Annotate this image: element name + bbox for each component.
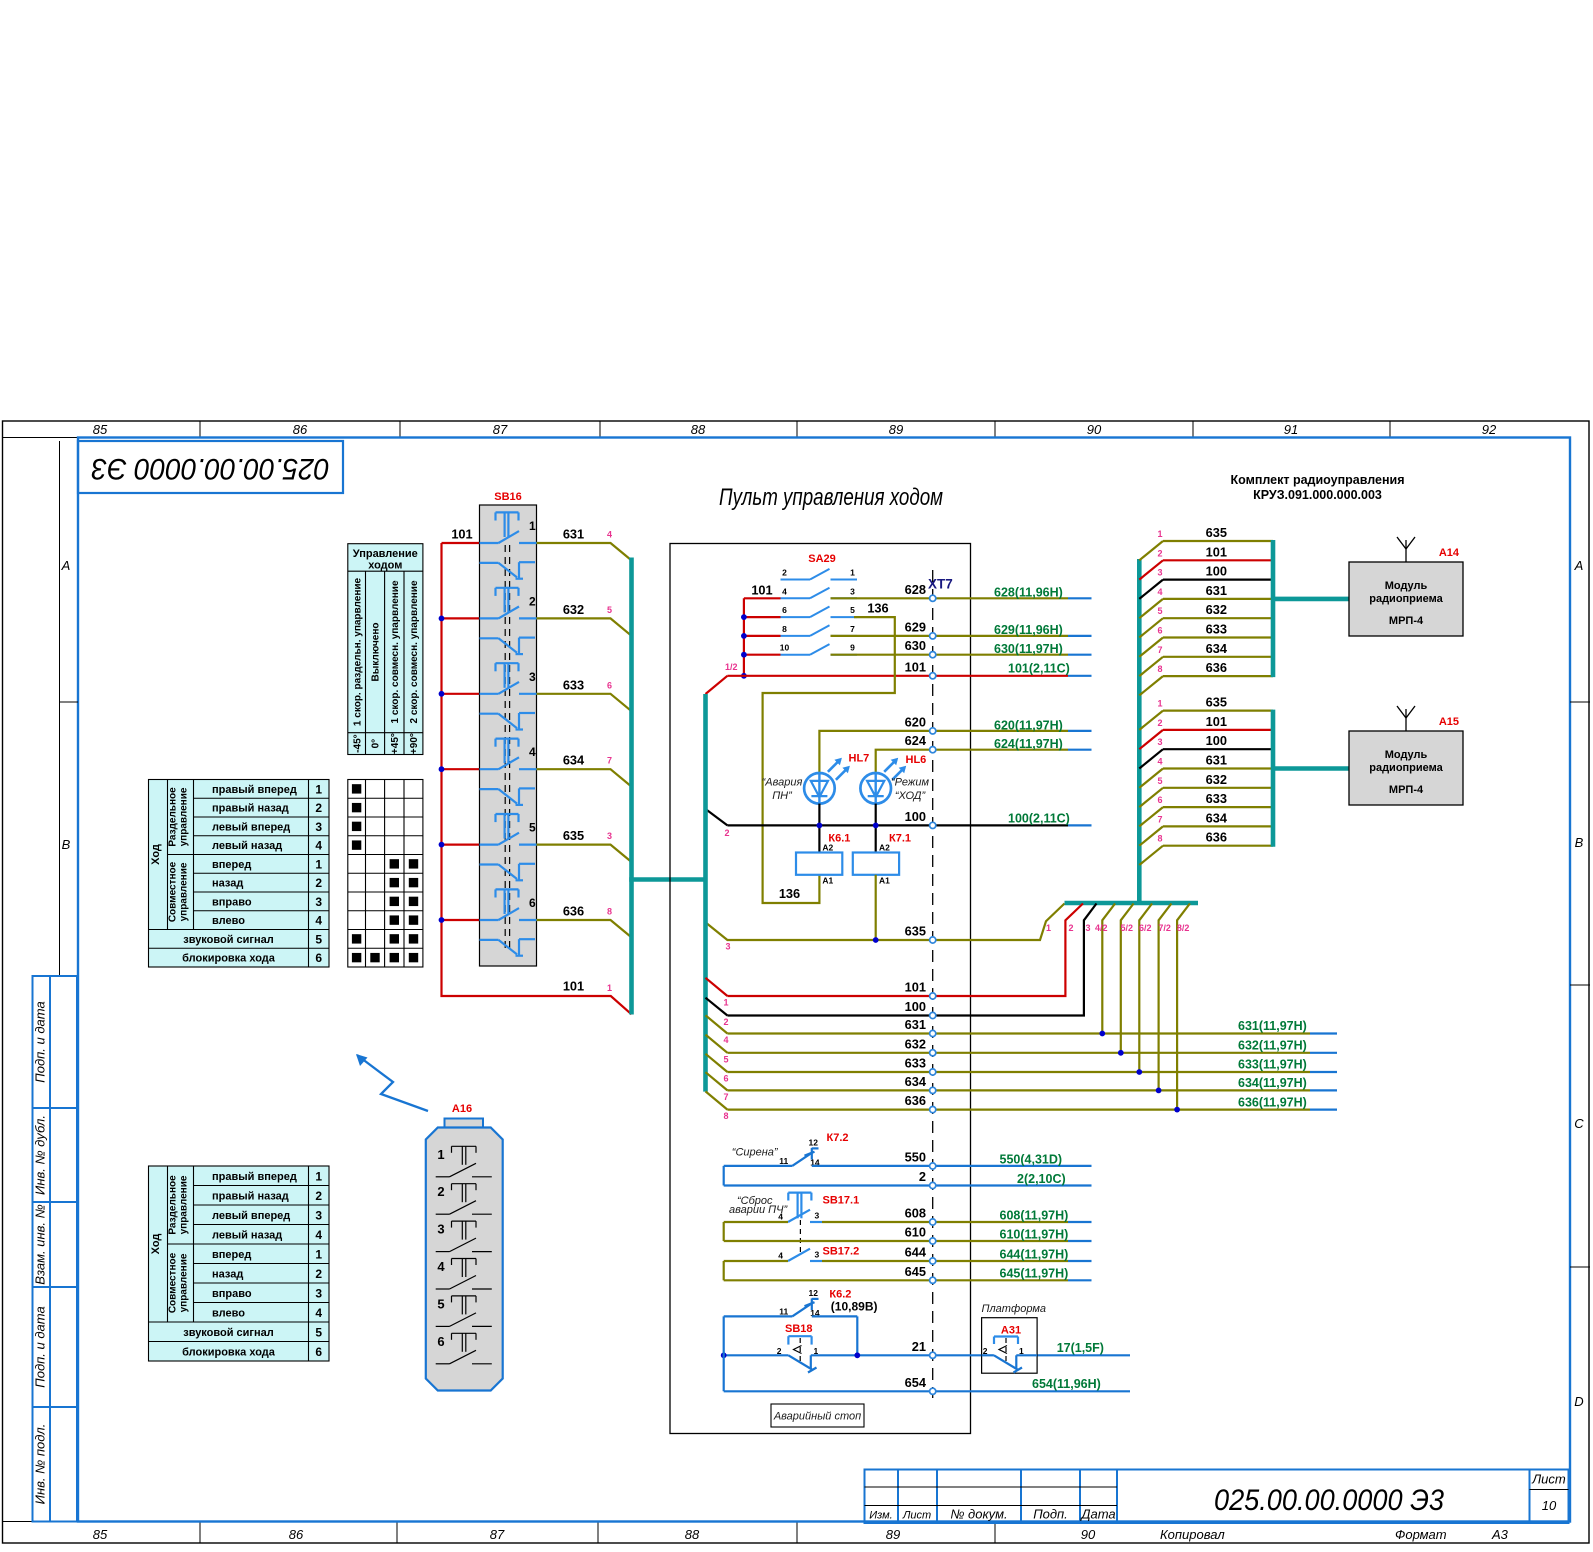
wire 632 (SB16 pin 5) [537, 602, 632, 636]
svg-text:12: 12 [809, 1288, 819, 1298]
svg-text:3: 3 [607, 831, 612, 841]
svg-text:Платформа: Платформа [982, 1303, 1047, 1315]
svg-text:17(1,5F): 17(1,5F) [1057, 1341, 1104, 1355]
A16 contact 6 [436, 1333, 492, 1364]
svg-text:3: 3 [529, 670, 536, 684]
svg-text:3: 3 [437, 1222, 444, 1237]
svg-text:Комплект радиоуправления: Комплект радиоуправления [1230, 473, 1404, 487]
svg-text:1: 1 [315, 782, 322, 796]
svg-text:правый вперед: правый вперед [212, 1171, 297, 1183]
svg-text:1 скор. совмесн. упарвление: 1 скор. совмесн. упарвление [390, 580, 401, 723]
svg-text:Управление: Управление [353, 548, 418, 560]
svg-text:4: 4 [315, 914, 322, 928]
svg-text:Взам. инв. №: Взам. инв. № [33, 1204, 48, 1284]
wire 2 row [724, 1166, 1092, 1186]
svg-text:2: 2 [1157, 548, 1162, 558]
svg-text:1 скор. раздельн. упарвление: 1 скор. раздельн. упарвление [352, 577, 363, 726]
wire 633 (SB16 pin 6) [537, 677, 632, 711]
svg-text:92: 92 [1482, 422, 1497, 437]
switch SB16 unit 4 [480, 739, 537, 805]
svg-text:7: 7 [850, 624, 855, 634]
svg-text:5: 5 [723, 1054, 728, 1064]
junction dot wire 636 [1174, 1107, 1180, 1113]
wire 633 row [706, 904, 1338, 1084]
emergency stop button SB18 [724, 1323, 819, 1373]
wire 21 row [811, 1339, 1130, 1356]
svg-text:Модуль: Модуль [1385, 749, 1428, 761]
svg-text:100: 100 [905, 999, 926, 1014]
svg-text:610: 610 [905, 1225, 926, 1240]
wire 634 to module A15 pin 7 [1139, 810, 1273, 845]
junction dot wire 634 [1156, 1088, 1162, 1094]
svg-text:2: 2 [315, 801, 322, 815]
svg-text:630: 630 [905, 638, 926, 653]
svg-text:101: 101 [905, 659, 926, 674]
svg-text:1: 1 [437, 1147, 444, 1162]
svg-text:№ докум.: № докум. [950, 1507, 1007, 1522]
svg-text:100(2,11С): 100(2,11С) [1008, 811, 1070, 825]
svg-text:644(11,97Н): 644(11,97Н) [1000, 1247, 1069, 1261]
svg-text:634: 634 [905, 1074, 927, 1089]
svg-text:644: 644 [905, 1245, 927, 1260]
svg-text:2: 2 [724, 828, 729, 838]
svg-text:6: 6 [315, 1345, 322, 1359]
svg-text:D: D [1574, 1394, 1583, 1409]
svg-text:звуковой сигнал: звуковой сигнал [183, 934, 274, 946]
svg-text:101: 101 [1206, 544, 1227, 559]
wire 634 row [706, 904, 1338, 1102]
svg-text:631: 631 [905, 1017, 926, 1032]
wire 628 from SA29 pin 3 [831, 582, 1092, 600]
svg-text:влево: влево [212, 1307, 245, 1319]
svg-text:Лист: Лист [902, 1510, 931, 1522]
svg-text:633: 633 [563, 677, 584, 692]
svg-text:636: 636 [563, 904, 584, 919]
svg-text:136: 136 [779, 886, 800, 901]
svg-text:608(11,97Н): 608(11,97Н) [1000, 1208, 1069, 1222]
svg-text:К7.2: К7.2 [827, 1132, 849, 1144]
svg-text:8: 8 [782, 624, 787, 634]
svg-text:5: 5 [315, 1325, 322, 1339]
svg-text:+45°: +45° [390, 733, 401, 754]
table Ход (lower) [149, 1166, 330, 1361]
svg-text:“Режим: “Режим [891, 776, 930, 788]
svg-text:левый вперед: левый вперед [212, 821, 290, 833]
svg-text:“ХОД”: “ХОД” [895, 790, 927, 802]
svg-text:КРУЗ.091.000.000.003: КРУЗ.091.000.000.003 [1253, 488, 1382, 502]
svg-text:3: 3 [1157, 737, 1162, 747]
antenna of A15 [1397, 706, 1415, 731]
svg-text:Подп.: Подп. [1033, 1507, 1068, 1522]
wire 101 red feed bus to SB16 [442, 527, 632, 1015]
svg-text:636: 636 [1206, 830, 1227, 845]
svg-text:8: 8 [723, 1111, 728, 1121]
svg-text:назад: назад [212, 1268, 243, 1280]
svg-text:634: 634 [1206, 810, 1228, 825]
svg-text:1: 1 [607, 983, 612, 993]
connector bracket for A14 [1273, 540, 1349, 677]
svg-text:XT7: XT7 [928, 577, 953, 592]
svg-text:2: 2 [1157, 718, 1162, 728]
svg-text:Инв. № подл.: Инв. № подл. [33, 1424, 48, 1505]
switch SB16 unit 6 [480, 889, 537, 955]
junction dots on 101 bus [439, 616, 445, 923]
junction dot wire 632 [1118, 1050, 1124, 1056]
wire 635 to module A14 pin 1 [1139, 525, 1273, 560]
svg-text:управление: управление [179, 862, 190, 921]
A16 contact 5 [436, 1296, 492, 1327]
svg-text:2: 2 [315, 876, 322, 890]
wire 100 to module A15 pin 3 [1139, 733, 1273, 768]
top-left stamp 025.00.00.0000 Э3 (rotated) [78, 441, 343, 493]
svg-text:645(11,97Н): 645(11,97Н) [1000, 1267, 1069, 1281]
svg-text:Ход: Ход [150, 844, 162, 865]
svg-text:88: 88 [685, 1527, 700, 1542]
svg-text:К7.1: К7.1 [889, 832, 911, 844]
svg-text:8: 8 [1157, 664, 1162, 674]
wire 632 to module A15 pin 5 [1139, 772, 1273, 807]
svg-text:6: 6 [437, 1334, 444, 1349]
svg-text:654(11,96Н): 654(11,96Н) [1032, 1377, 1101, 1391]
junction dot wire 633 [1136, 1069, 1142, 1075]
svg-text:3: 3 [315, 820, 322, 834]
svg-text:6: 6 [1157, 795, 1162, 805]
wire 100 row through lamps [706, 804, 1092, 853]
svg-text:левый назад: левый назад [212, 1229, 282, 1241]
svg-text:90: 90 [1087, 422, 1102, 437]
svg-text:SB16: SB16 [494, 491, 522, 503]
svg-text:89: 89 [886, 1527, 900, 1542]
svg-text:1: 1 [850, 568, 855, 578]
svg-text:3: 3 [815, 1211, 820, 1221]
A16 contact 1 [436, 1146, 492, 1177]
panel outline Пульт управления ходом [670, 484, 971, 1434]
svg-text:633: 633 [1206, 622, 1227, 637]
svg-text:10: 10 [1542, 1498, 1557, 1513]
svg-text:Раздельное: Раздельное [168, 787, 179, 847]
svg-text:632(11,97Н): 632(11,97Н) [1238, 1039, 1307, 1053]
svg-text:8/2: 8/2 [1177, 923, 1190, 933]
svg-text:4: 4 [437, 1259, 445, 1274]
svg-text:C: C [1574, 1116, 1584, 1131]
svg-text:1/2: 1/2 [725, 662, 738, 672]
svg-text:8: 8 [607, 907, 612, 917]
wire 635 row (K7.1 coil to bundle) [706, 875, 1065, 952]
svg-text:3: 3 [1085, 923, 1090, 933]
svg-text:631: 631 [1206, 583, 1227, 598]
relay coil K7.1 [853, 832, 911, 885]
svg-text:5: 5 [1157, 606, 1162, 616]
wire 654 row [724, 1316, 1130, 1391]
svg-text:3: 3 [315, 1208, 322, 1222]
A16 contact 2 [436, 1184, 492, 1215]
svg-text:Совместное: Совместное [168, 1252, 179, 1313]
svg-text:5: 5 [850, 605, 855, 615]
svg-text:влево: влево [212, 915, 245, 927]
wire 634 (SB16 pin 7) [537, 753, 632, 787]
svg-text:Совместное: Совместное [168, 861, 179, 922]
wire 100 to module A14 pin 3 [1139, 564, 1273, 599]
junction dot wire 631 [1099, 1031, 1105, 1037]
junction dots on wire 21 [721, 1352, 860, 1358]
switch SB16 unit 5 [480, 814, 537, 880]
svg-text:9: 9 [850, 643, 855, 653]
svg-text:управление: управление [179, 787, 190, 846]
svg-text:A16: A16 [452, 1103, 472, 1115]
svg-text:4: 4 [778, 1250, 783, 1260]
svg-text:86: 86 [293, 422, 308, 437]
svg-text:608: 608 [905, 1206, 926, 1221]
svg-text:4: 4 [782, 586, 787, 596]
svg-text:7: 7 [607, 756, 612, 766]
LED lamp HL7 [762, 752, 870, 803]
svg-text:МРП-4: МРП-4 [1389, 615, 1424, 627]
svg-text:правый назад: правый назад [212, 803, 289, 815]
svg-text:629: 629 [905, 619, 926, 634]
svg-text:6: 6 [607, 680, 612, 690]
svg-text:6: 6 [315, 951, 322, 965]
svg-text:550: 550 [905, 1149, 926, 1164]
svg-text:вправо: вправо [212, 1288, 252, 1300]
svg-text:“Авария: “Авария [762, 776, 803, 788]
svg-text:4: 4 [315, 1306, 322, 1320]
svg-text:Лист: Лист [1531, 1472, 1566, 1487]
svg-text:7: 7 [1157, 645, 1162, 655]
relay contact K7.2 (siren) [724, 1132, 849, 1167]
svg-text:SB18: SB18 [785, 1323, 813, 1335]
svg-text:SA29: SA29 [808, 553, 836, 565]
A16 contact 4 [436, 1259, 492, 1290]
LED lamp HL6 [860, 754, 929, 804]
teal cable bundle (panel riser and cross bus) [706, 559, 1199, 1092]
wire 629 from SA29 pin 7 [831, 619, 1092, 637]
svg-text:2: 2 [919, 1169, 926, 1184]
svg-text:101(2,11С): 101(2,11С) [1008, 661, 1070, 675]
svg-text:90: 90 [1081, 1527, 1096, 1542]
selection matrix table [348, 780, 423, 968]
svg-text:632: 632 [563, 602, 584, 617]
svg-text:636: 636 [905, 1093, 926, 1108]
connector bracket for A15 [1273, 710, 1349, 847]
svg-text:левый назад: левый назад [212, 840, 282, 852]
svg-text:7: 7 [723, 1092, 728, 1102]
svg-text:100: 100 [1206, 733, 1227, 748]
svg-text:-45°: -45° [352, 734, 363, 752]
svg-text:3: 3 [315, 1286, 322, 1300]
svg-text:635: 635 [905, 924, 926, 939]
svg-text:91: 91 [1284, 422, 1298, 437]
svg-text:2(2,10С): 2(2,10С) [1017, 1172, 1066, 1186]
svg-text:136: 136 [867, 600, 888, 615]
svg-text:21: 21 [912, 1339, 926, 1354]
pushbutton SB17.2 [778, 1246, 859, 1261]
svg-text:635: 635 [1206, 695, 1227, 710]
svg-text:6: 6 [529, 896, 536, 910]
svg-text:1: 1 [1046, 923, 1051, 933]
svg-text:6/2: 6/2 [1139, 923, 1152, 933]
svg-text:Инв. № дубл.: Инв. № дубл. [33, 1115, 48, 1195]
junction dots SA29 feed [741, 614, 747, 679]
svg-text:4: 4 [778, 1211, 783, 1221]
svg-text:МРП-4: МРП-4 [1389, 784, 1424, 796]
wire 645 row [724, 1261, 1092, 1281]
svg-text:блокировка хода: блокировка хода [182, 953, 276, 965]
svg-text:633: 633 [905, 1056, 926, 1071]
svg-text:А: А [1574, 558, 1584, 573]
svg-text:4/2: 4/2 [1095, 923, 1108, 933]
svg-text:5: 5 [1157, 776, 1162, 786]
wire 101 to module A14 pin 2 [1139, 544, 1273, 579]
wire 100 lower row [706, 904, 1097, 1028]
wire 636 to module A14 pin 8 [1139, 660, 1273, 695]
wire 608 row [724, 1206, 1092, 1223]
svg-text:(10,89В): (10,89В) [831, 1300, 878, 1314]
A16 contact 3 [436, 1221, 492, 1252]
svg-text:025.00.00.0000 Э3: 025.00.00.0000 Э3 [1214, 1484, 1444, 1517]
svg-text:645: 645 [905, 1264, 926, 1279]
svg-text:5/2: 5/2 [1121, 923, 1134, 933]
wire 635 to module A15 pin 1 [1139, 695, 1273, 730]
svg-text:1: 1 [315, 1169, 322, 1183]
pushbutton SB17.1 (reset) [729, 1193, 859, 1256]
svg-text:A31: A31 [1001, 1324, 1021, 1336]
svg-text:Формат: Формат [1395, 1527, 1447, 1542]
svg-text:101: 101 [751, 583, 772, 598]
wire 624 to lamp HL6 [876, 733, 1092, 773]
svg-text:Раздельное: Раздельное [168, 1175, 179, 1235]
svg-text:SB17.1: SB17.1 [823, 1195, 860, 1207]
svg-text:3: 3 [815, 1250, 820, 1260]
svg-text:1: 1 [1157, 699, 1162, 709]
svg-text:1: 1 [315, 1247, 322, 1261]
wire 101 feed to SA29 [744, 583, 781, 676]
svg-text:Изм.: Изм. [869, 1510, 892, 1522]
svg-text:6: 6 [1157, 626, 1162, 636]
svg-text:635: 635 [1206, 525, 1227, 540]
svg-text:правый назад: правый назад [212, 1190, 289, 1202]
svg-text:87: 87 [493, 422, 508, 437]
junction dot wire 635 / K7.1 [873, 937, 879, 943]
svg-text:85: 85 [93, 1527, 108, 1542]
svg-text:4: 4 [315, 1228, 322, 1242]
wire 136 from SA29 pin 5 to K6.1 coil [763, 600, 895, 903]
wire 630 from SA29 pin 9 [831, 638, 1092, 656]
svg-text:8: 8 [1157, 834, 1162, 844]
svg-text:6: 6 [782, 605, 787, 615]
wire 636 row [706, 904, 1338, 1122]
label Аварийный стоп [771, 1404, 864, 1427]
svg-text:6: 6 [723, 1074, 728, 1084]
relay coil K6.1 [796, 832, 850, 885]
wire 633 to module A15 pin 6 [1139, 791, 1273, 826]
svg-text:2: 2 [315, 1189, 322, 1203]
wire 101 row (XT7 pin) with 1/2 marker [706, 659, 1092, 694]
wire 101 lower row [706, 904, 1084, 1008]
svg-text:87: 87 [490, 1527, 505, 1542]
svg-text:1: 1 [529, 519, 536, 533]
svg-text:А2: А2 [822, 842, 833, 852]
svg-text:2: 2 [782, 568, 787, 578]
svg-text:0°: 0° [371, 739, 382, 749]
svg-text:86: 86 [289, 1527, 304, 1542]
junction dots on 100 row [817, 823, 879, 829]
radio module A14 [1349, 547, 1463, 636]
svg-text:A15: A15 [1439, 716, 1459, 728]
svg-text:101: 101 [1206, 714, 1227, 729]
svg-text:2: 2 [529, 594, 536, 608]
svg-text:631(11,97Н): 631(11,97Н) [1238, 1019, 1307, 1033]
svg-text:634: 634 [1206, 641, 1228, 656]
svg-text:100: 100 [905, 809, 926, 824]
svg-text:радиоприема: радиоприема [1369, 762, 1443, 774]
svg-text:+90°: +90° [409, 733, 420, 754]
svg-text:12: 12 [809, 1138, 819, 1148]
wire 632 to module A14 pin 5 [1139, 602, 1273, 637]
wire 635 (SB16 pin 3) [537, 828, 632, 862]
svg-text:вперед: вперед [212, 1249, 251, 1261]
wire 620 to lamp HL7 [819, 714, 1091, 773]
svg-text:управление: управление [179, 1253, 190, 1312]
svg-text:633(11,97Н): 633(11,97Н) [1238, 1058, 1307, 1072]
table Ход (upper) [149, 780, 330, 968]
svg-text:620(11,97Н): 620(11,97Н) [994, 718, 1063, 732]
svg-text:Ход: Ход [150, 1234, 162, 1255]
svg-text:2 скор. совмесн. упарвление: 2 скор. совмесн. упарвление [409, 580, 420, 723]
wire 631 to module A14 pin 4 [1139, 583, 1273, 618]
svg-text:4: 4 [315, 839, 322, 853]
svg-text:А1: А1 [822, 875, 833, 885]
svg-text:А1: А1 [879, 875, 890, 885]
relay contact K6.2 with value (10,89В) [724, 1288, 878, 1355]
svg-text:3: 3 [1157, 568, 1162, 578]
svg-text:11: 11 [779, 1307, 788, 1317]
svg-text:правый вперед: правый вперед [212, 784, 297, 796]
svg-text:634(11,97Н): 634(11,97Н) [1238, 1076, 1307, 1090]
svg-text:610(11,97Н): 610(11,97Н) [1000, 1227, 1069, 1241]
svg-text:620: 620 [905, 714, 926, 729]
svg-text:89: 89 [889, 422, 903, 437]
svg-text:Дата: Дата [1079, 1507, 1115, 1522]
svg-text:3: 3 [850, 586, 855, 596]
radio arrow (wireless link symbol) [356, 1054, 428, 1111]
svg-text:1: 1 [1019, 1346, 1024, 1356]
svg-text:вправо: вправо [212, 896, 252, 908]
svg-text:2: 2 [723, 1017, 728, 1027]
svg-text:7: 7 [1157, 814, 1162, 824]
radio module A15 [1349, 716, 1463, 805]
wire 631 (SB16 pin 4) [537, 527, 632, 561]
svg-text:назад: назад [212, 878, 243, 890]
switch SB16 unit 1 [480, 512, 537, 578]
wire 631 row [706, 904, 1338, 1046]
svg-text:1: 1 [315, 857, 322, 871]
svg-text:631: 631 [563, 527, 584, 542]
svg-text:2: 2 [437, 1184, 444, 1199]
svg-text:5: 5 [437, 1296, 444, 1311]
svg-text:7/2: 7/2 [1158, 923, 1171, 933]
connector A16 [426, 1103, 503, 1391]
svg-text:85: 85 [93, 422, 108, 437]
svg-text:4: 4 [607, 530, 612, 540]
switch SB16 unit 2 [480, 588, 537, 654]
title block [865, 1470, 1569, 1524]
wire 631 to module A15 pin 4 [1139, 753, 1273, 788]
svg-text:632: 632 [1206, 602, 1227, 617]
wire 101 bottom run label [563, 979, 612, 994]
svg-text:630(11,97Н): 630(11,97Н) [994, 642, 1063, 656]
svg-text:5: 5 [607, 605, 612, 615]
svg-text:HL7: HL7 [849, 752, 870, 764]
